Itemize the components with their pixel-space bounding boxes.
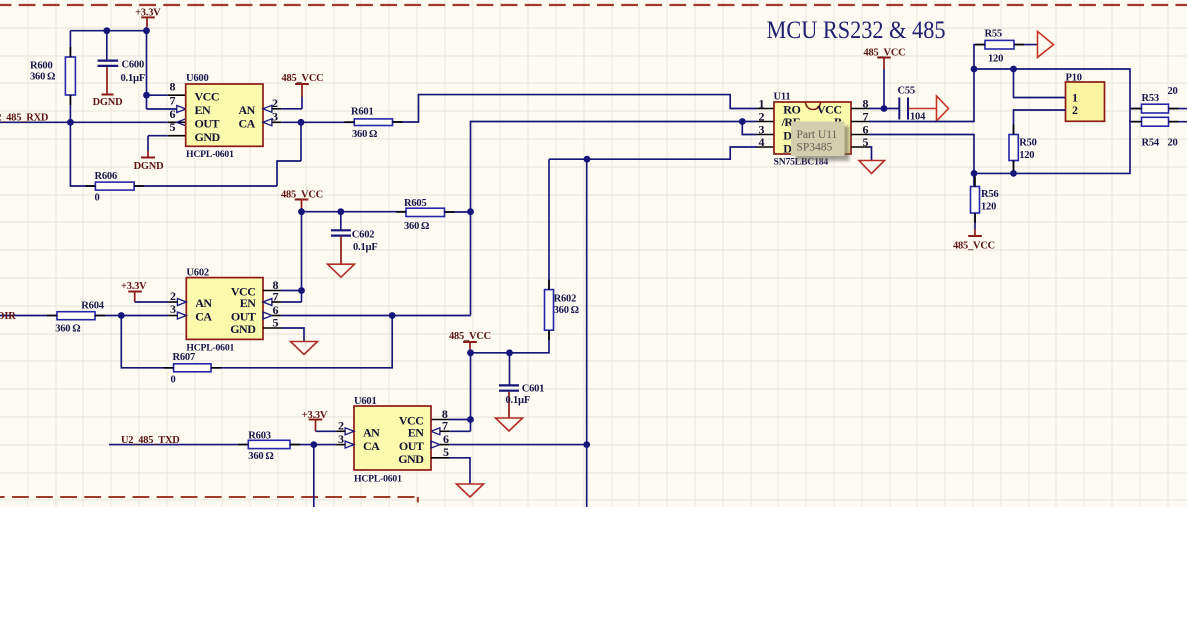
capacitor C601 [499, 353, 519, 418]
svg-text:0.1µF: 0.1µF [121, 73, 146, 84]
resistor R600 [65, 57, 75, 95]
svg-text:U602: U602 [186, 268, 209, 279]
pin 3 arrow+stub U601 CA [336, 441, 354, 448]
junction C602 top [337, 208, 344, 215]
wire net RXD horizontal [0, 121, 168, 123]
svg-text:R606: R606 [95, 171, 118, 182]
svg-text:4: 4 [759, 135, 765, 149]
wire R605 to DIR vertical [445, 211, 471, 213]
svg-text:6: 6 [170, 107, 176, 121]
resistor R55 [985, 40, 1014, 49]
junction net B / R55 [971, 66, 978, 73]
svg-text:HCPL-0601: HCPL-0601 [186, 343, 234, 354]
resistor R602 [545, 290, 554, 331]
junction TXD branch [310, 441, 317, 448]
svg-text:+3.3V: +3.3V [121, 281, 147, 292]
svg-text:7: 7 [442, 419, 448, 433]
resistor R56 [971, 187, 980, 214]
junction C601 top [506, 349, 513, 356]
wire net B top rail [974, 69, 1142, 122]
svg-text:+3.3V: +3.3V [135, 8, 161, 19]
sheet border corner piece [417, 497, 419, 503]
power +3.3V (U602) [128, 292, 142, 303]
svg-text:EN: EN [240, 296, 257, 310]
svg-text:C601: C601 [522, 384, 545, 395]
port arrow (R55 right) [1038, 31, 1054, 57]
svg-text:R50: R50 [1019, 138, 1036, 149]
svg-text:0.1µF: 0.1µF [353, 242, 378, 253]
junction U601 VCC [467, 416, 474, 423]
junction R604/R607 [118, 312, 125, 319]
ground GND (C601) [496, 418, 523, 431]
svg-text:2: 2 [759, 110, 765, 124]
junction net A / R56 [971, 170, 978, 177]
power +3.3V (U601) [309, 420, 323, 432]
ground DGND (U600 pin5) [141, 157, 155, 159]
pin 7 arrow+stub U602 EN [263, 299, 302, 306]
pin 5 stub U600 + wire to DGND [148, 136, 186, 158]
svg-text:AN: AN [238, 103, 255, 117]
svg-text:U601: U601 [354, 396, 377, 407]
chip part names [186, 149, 828, 485]
pin 6 arrow+stub U601 OUT [431, 441, 587, 448]
junction 485_VCC/R605 [298, 208, 305, 215]
svg-text:R603: R603 [248, 431, 271, 442]
svg-text:360 Ω: 360 Ω [352, 129, 377, 140]
svg-text:+3.3V: +3.3V [302, 410, 328, 421]
junction +3.3V rail [143, 27, 150, 34]
pin 2 arrow+stub U602 AN [168, 299, 186, 306]
resistor R601 [354, 119, 392, 126]
wire 485_VCC down to U601 pins 8,7 [449, 353, 471, 432]
svg-text:120: 120 [1019, 150, 1034, 161]
junction RXD/R600/R606 [67, 119, 74, 126]
wire R600 top rail [70, 31, 146, 123]
tooltip Part U11 SP3485 [791, 122, 849, 161]
pin 2 arrow+stub U600 AN [263, 97, 302, 112]
pin 6 stub U11 + wire A [851, 135, 974, 187]
svg-text:EN: EN [195, 103, 212, 117]
svg-text:R604: R604 [81, 301, 104, 312]
svg-text:VCC: VCC [195, 89, 220, 103]
pin 7 arrow+stub U601 EN [431, 428, 449, 435]
svg-text:5: 5 [273, 315, 279, 329]
svg-text:GND: GND [230, 322, 256, 336]
svg-text:U11: U11 [774, 92, 791, 103]
resistor R605 [406, 208, 445, 216]
svg-text:HCPL-0601: HCPL-0601 [354, 474, 402, 485]
svg-text:8: 8 [863, 97, 869, 111]
svg-text:C600: C600 [122, 60, 145, 71]
svg-text:360 Ω: 360 Ω [554, 305, 579, 316]
svg-text:R605: R605 [404, 198, 427, 209]
svg-text:R55: R55 [985, 29, 1002, 40]
svg-text:2: 2 [338, 418, 344, 432]
power 485_VCC (below R56) [968, 213, 982, 236]
svg-text:CA: CA [363, 439, 380, 453]
power 485_VCC (U601 rail) [463, 342, 477, 353]
svg-text:485_VCC: 485_VCC [449, 331, 491, 342]
svg-text:2: 2 [272, 96, 278, 110]
sheet border dashed bottom [0, 496, 419, 498]
svg-text:R600: R600 [30, 61, 53, 72]
wire R50 bottom [1013, 161, 1015, 174]
svg-text:7: 7 [170, 93, 176, 107]
wire R55 to port arrow [1014, 44, 1038, 46]
junction DI/U601-OUT [584, 156, 591, 163]
wire R604 to U602 CA [95, 315, 168, 317]
wire R606 loop [70, 122, 301, 186]
svg-text:485_VCC: 485_VCC [281, 189, 323, 200]
svg-text:0: 0 [95, 193, 100, 204]
pin 6 stub+arrow U600 OUT [168, 119, 186, 126]
svg-text:R602: R602 [554, 294, 577, 305]
ground GND (U602 pin5) [291, 342, 318, 355]
svg-text:485_VCC: 485_VCC [953, 241, 995, 252]
capacitor C600 [98, 31, 119, 94]
ground DGND (C600) [102, 94, 114, 96]
svg-text:485_VCC: 485_VCC [864, 48, 906, 59]
svg-text:2: 2 [1072, 103, 1078, 117]
svg-text:DGND: DGND [93, 97, 123, 108]
svg-text:3: 3 [272, 110, 278, 124]
resistor R603 [248, 440, 290, 448]
wire DIR vertical to U11 pins 2,3 [471, 122, 757, 316]
ground GND (U601 pin5) [457, 484, 484, 497]
svg-text:5: 5 [863, 135, 869, 149]
svg-text:CA: CA [195, 310, 212, 324]
navy designator and value labels [30, 29, 1178, 463]
wire TXD [109, 444, 248, 446]
pin 3 arrow+stub U600 CA [263, 119, 354, 126]
svg-text:GND: GND [195, 130, 221, 144]
svg-text:HCPL-0601: HCPL-0601 [186, 149, 234, 160]
resistor R53 [1142, 104, 1169, 113]
svg-text:AN: AN [195, 296, 212, 310]
junction U602 OUT/R607 [389, 312, 396, 319]
power 485_VCC (above R605) [295, 200, 309, 212]
pin 1 stub U11 [757, 108, 775, 110]
resistor R54 [1142, 117, 1169, 126]
chip U11 [774, 102, 851, 154]
sheet border dashed top [0, 4, 1187, 6]
svg-text:DGND: DGND [134, 161, 164, 172]
svg-text:5: 5 [170, 120, 176, 134]
svg-text:MCU RS232 & 485: MCU RS232 & 485 [767, 17, 946, 44]
chip U600 [186, 84, 263, 146]
pin 5 stub U11 + wire to GND [851, 147, 872, 161]
pin 7 stub U11 + wire B [851, 45, 985, 122]
pin 7 arrow U600 EN [177, 106, 186, 113]
resistor R606 [95, 182, 134, 190]
resistor R50 [1009, 135, 1018, 161]
svg-text:EN: EN [408, 426, 425, 440]
wire net A bottom rail [974, 122, 1142, 174]
svg-text:360 Ω: 360 Ω [248, 451, 273, 462]
pin 2 stub U11 [757, 121, 775, 123]
svg-text:120: 120 [981, 202, 996, 213]
svg-text:2: 2 [170, 289, 176, 303]
pin 4 stub U11 [757, 146, 775, 148]
wire U601 OUT vertical [586, 159, 588, 507]
ground GND (U11 pin5) [859, 161, 885, 174]
svg-text:GND: GND [398, 452, 424, 466]
junction net B / P10 pin1 [1010, 66, 1017, 73]
svg-text:0: 0 [171, 375, 176, 386]
svg-text:360 Ω: 360 Ω [55, 324, 80, 335]
svg-text:C602: C602 [352, 230, 375, 241]
power +3.3V (top) [141, 17, 155, 30]
wire 485_VCC vertical to U602 [301, 212, 303, 302]
wire DIR left + R604 [0, 315, 57, 317]
capacitor C602 [331, 212, 351, 265]
svg-text:SP3485: SP3485 [797, 142, 833, 154]
maroon net labels [0, 8, 995, 447]
svg-text:360 Ω: 360 Ω [404, 221, 429, 232]
svg-text:5: 5 [443, 445, 449, 459]
svg-text:3: 3 [338, 432, 344, 446]
svg-text:7: 7 [273, 289, 279, 303]
junction U601 OUT [583, 441, 590, 448]
wire R601 to U11 pin1 [393, 95, 757, 122]
resistor lead stubs (black) [47, 45, 1179, 445]
svg-text:R601: R601 [351, 107, 374, 118]
wire R607 loop [121, 316, 392, 368]
wire P10 pin1 [1014, 69, 1066, 98]
svg-text:R53: R53 [1142, 93, 1159, 104]
pin 5 stub U601 + wire to GND [431, 458, 470, 484]
power 485_VCC (U600 AN) [295, 84, 309, 97]
capacitor C55 [899, 98, 908, 120]
svg-text:P10: P10 [1066, 73, 1082, 84]
pin 5 stub U602 + wire to GND [263, 328, 304, 342]
svg-text:120: 120 [988, 54, 1003, 65]
pin 6 arrow+stub U602 OUT [263, 312, 471, 319]
svg-text:C55: C55 [898, 86, 915, 97]
pin 3 arrow+stub U602 CA [168, 312, 186, 319]
ground GND (C602) [328, 264, 355, 277]
resistor R607 [174, 364, 211, 372]
U11 top notch arc [806, 102, 821, 110]
svg-text:104: 104 [910, 112, 926, 123]
svg-text:U2_485_TXD: U2_485_TXD [121, 435, 180, 446]
junction C600 top [103, 27, 110, 34]
pin 8 stub U600 [168, 94, 186, 96]
wire R603 to U601 CA [290, 444, 336, 446]
chip U601 [354, 406, 431, 470]
wire P10 pin2 to R50 [1014, 110, 1066, 135]
svg-text:20: 20 [1168, 138, 1178, 149]
svg-text:R56: R56 [981, 189, 998, 200]
pin 8 stub U602 + wire [263, 290, 302, 292]
connector P10 [1066, 82, 1105, 121]
svg-text:3: 3 [170, 302, 176, 316]
svg-text:AN: AN [363, 426, 380, 440]
junction U602 VCC [298, 287, 305, 294]
wire DI net with R602 [471, 147, 757, 353]
svg-text:U2_485_RXD: U2_485_RXD [0, 112, 48, 123]
svg-text:OUT: OUT [399, 439, 424, 453]
svg-text:6: 6 [443, 432, 449, 446]
chip U602 [186, 278, 263, 340]
pin 2 arrow+stub U601 AN [336, 428, 354, 435]
junction U11 /RE-DE [739, 118, 746, 125]
svg-text:OUT: OUT [195, 117, 220, 131]
svg-text:R607: R607 [173, 352, 196, 363]
svg-text:0.1µF: 0.1µF [506, 395, 531, 406]
power 485_VCC (U11) [877, 58, 891, 109]
port arrow (C55 right) [909, 96, 949, 121]
svg-text:20: 20 [1168, 86, 1178, 97]
pin 3 stub U11 [757, 134, 775, 136]
pin 8 stub U11 + wire [851, 108, 899, 110]
junction 485_VCC rail U601 [467, 349, 474, 356]
svg-text:485_VCC: 485_VCC [282, 73, 324, 84]
svg-text:1: 1 [759, 97, 765, 111]
junction R605/DIR [467, 208, 474, 215]
wire R53 right [1169, 108, 1187, 110]
resistor R604 [57, 312, 95, 320]
svg-text:U600: U600 [186, 73, 209, 84]
svg-text:U2_485_DIR: U2_485_DIR [0, 311, 16, 322]
junction U600 VCC [143, 92, 150, 99]
wire +3.3V to U602 AN [135, 301, 169, 303]
wire R54 right [1169, 121, 1187, 123]
junction net A / R50 [1010, 170, 1017, 177]
junction U11 VCC/C55 [881, 105, 888, 112]
svg-text:R54: R54 [1142, 138, 1160, 149]
svg-text:8: 8 [170, 80, 176, 94]
svg-text:7: 7 [863, 110, 869, 124]
svg-text:360 Ω: 360 Ω [30, 72, 55, 83]
wire +3.3V to U601 AN [316, 430, 337, 432]
svg-text:Part U11: Part U11 [797, 129, 838, 141]
wire +3.3V drop to U600 pins [147, 31, 177, 109]
wire 485_VCC to R605 [302, 211, 407, 213]
svg-text:D: D [783, 141, 792, 155]
wire TXD branch down [313, 445, 315, 507]
svg-text:CA: CA [238, 117, 255, 131]
pin 8 stub U601 [431, 419, 449, 421]
junction U600 CA/R601/R606 [298, 119, 305, 126]
